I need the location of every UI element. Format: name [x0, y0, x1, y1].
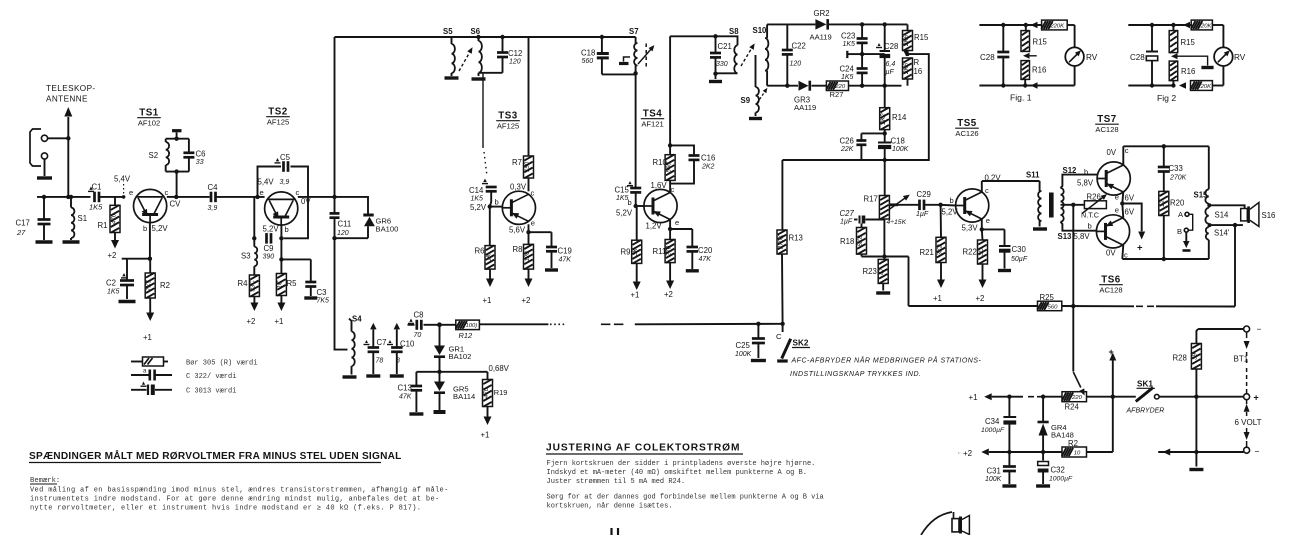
capacitor C19 — [545, 232, 572, 270]
svg-text:+1: +1 — [143, 333, 152, 342]
svg-text:1K5: 1K5 — [471, 196, 484, 203]
fig2 meter RV — [1214, 25, 1246, 86]
svg-text:C: C — [776, 332, 782, 341]
svg-text:R15: R15 — [1033, 38, 1048, 47]
inductor S12 S13 secondary — [1058, 166, 1098, 241]
svg-text:(100): (100) — [464, 323, 478, 329]
wire TS4 emitter — [668, 220, 692, 232]
svg-text:C23: C23 — [841, 32, 855, 41]
capacitor C11 — [330, 197, 352, 238]
terminal +1 below R5 — [275, 296, 286, 327]
svg-text:R5: R5 — [287, 279, 298, 288]
svg-text:6K8: 6K8 — [857, 235, 864, 247]
svg-text:CV: CV — [170, 200, 182, 209]
svg-text:RV: RV — [1234, 53, 1246, 62]
wire osc top bus — [767, 23, 815, 25]
inductor S7 — [629, 27, 656, 76]
legend electrolytic symbol — [131, 382, 172, 396]
capacitor C4 — [208, 183, 219, 212]
svg-text:R15: R15 — [914, 33, 929, 42]
svg-text:50µF: 50µF — [1011, 256, 1028, 263]
svg-text:1µF: 1µF — [840, 219, 853, 226]
label 5,4V at TS1 — [114, 175, 131, 199]
inductor S3 — [241, 247, 257, 275]
svg-text:B: B — [1177, 227, 1182, 236]
svg-text:5,8V: 5,8V — [1077, 179, 1094, 188]
minus rail — [1158, 447, 1259, 470]
svg-text:6 VOLT: 6 VOLT — [1235, 418, 1262, 427]
svg-text:47K: 47K — [399, 394, 412, 401]
svg-text:R23: R23 — [863, 267, 877, 276]
svg-text:b: b — [1084, 168, 1088, 177]
svg-text:b: b — [1088, 222, 1092, 231]
svg-text:e: e — [1115, 206, 1119, 215]
svg-text:5,2V: 5,2V — [470, 203, 487, 212]
transistor TS4 — [644, 189, 677, 222]
svg-text:C11: C11 — [338, 220, 352, 229]
svg-text:e: e — [260, 188, 264, 197]
svg-text:6V: 6V — [1125, 208, 1135, 217]
resistor R8 — [513, 232, 534, 269]
resistor R22 — [963, 229, 988, 264]
labels TS7 base — [1077, 168, 1094, 188]
svg-text:2K6: 2K6 — [903, 62, 910, 75]
svg-text:+: + — [1254, 393, 1259, 403]
inductor S14 — [1205, 204, 1229, 224]
svg-text:C18: C18 — [581, 49, 595, 58]
wire center tap down — [1072, 205, 1074, 372]
AFC feedback wire — [782, 54, 928, 160]
fig2 resistor 220K top — [1191, 20, 1223, 30]
diode GR1 — [434, 325, 471, 372]
label telescope antenna — [46, 84, 96, 104]
svg-text:C8: C8 — [414, 311, 424, 320]
capacitor C13 — [398, 372, 440, 414]
svg-text:C30: C30 — [1012, 245, 1027, 254]
svg-text:220K: 220K — [1049, 23, 1065, 29]
svg-text:e: e — [531, 219, 535, 228]
capacitor C23 — [841, 22, 868, 54]
wire R17 R18 R23 node — [862, 219, 909, 259]
terminal +1 below R21 — [933, 263, 945, 304]
svg-text:GR2: GR2 — [814, 9, 830, 18]
svg-text:C28: C28 — [1130, 53, 1145, 62]
svg-text:120: 120 — [509, 59, 521, 66]
capacitor C6 — [183, 150, 205, 167]
resistor R23 — [863, 259, 891, 293]
svg-text:+2: +2 — [976, 294, 985, 303]
svg-text:R22: R22 — [963, 248, 977, 257]
legend electrolytic text — [186, 388, 236, 396]
antenna lead wire — [64, 107, 72, 197]
fig2 bottom wire — [1128, 82, 1186, 89]
svg-text:TS2: TS2 — [268, 107, 288, 118]
svg-text:b: b — [495, 198, 499, 207]
fig1 wiper — [1023, 53, 1037, 59]
svg-text:120: 120 — [790, 61, 802, 68]
transistor TS2 — [265, 192, 298, 225]
svg-text:270K: 270K — [1169, 175, 1187, 182]
diode GR3 — [794, 81, 826, 112]
svg-text:R2: R2 — [1068, 439, 1078, 448]
capacitor C34 electrolytic — [981, 397, 1016, 452]
capacitor C5 — [275, 153, 291, 186]
note paragraph — [30, 486, 449, 513]
terminal +2 below R4 — [247, 297, 259, 327]
svg-text:b: b — [628, 198, 632, 207]
svg-text:8: 8 — [396, 358, 400, 365]
transistor TS3 — [502, 178, 535, 224]
svg-text:1K5: 1K5 — [107, 289, 120, 296]
terminal +2 below R1 — [108, 233, 120, 261]
svg-text:7K5: 7K5 — [146, 279, 153, 291]
svg-text:Ved måling af en basisspænding: Ved måling af en basisspænding imod minu… — [30, 486, 449, 495]
resistor R4 — [238, 275, 260, 297]
resistor R10 — [653, 143, 676, 192]
emitter rail with + terminal — [1122, 204, 1145, 254]
svg-text:C31: C31 — [987, 467, 1001, 476]
wire R28 top to minus — [1198, 324, 1261, 334]
svg-text:instrumentets indre modstand.: instrumentets indre modstand. For at gør… — [30, 496, 440, 504]
tuning line to C14 — [483, 73, 487, 176]
svg-text:+1: +1 — [481, 431, 490, 440]
svg-text:AF102: AF102 — [138, 119, 160, 128]
wire to C3 — [281, 259, 310, 281]
svg-text:560: 560 — [582, 58, 594, 65]
svg-text:0V: 0V — [301, 197, 311, 206]
trimmer arrow R15 R16 — [903, 50, 910, 57]
svg-text:S16: S16 — [1262, 211, 1276, 220]
fig2 resistor 220K bottom — [1190, 81, 1223, 91]
inductor S4 — [343, 315, 363, 378]
wire TS4 top to tank — [670, 34, 718, 38]
TS1 lead labels — [129, 188, 181, 233]
terminal +2 below R11 — [664, 263, 674, 299]
capacitor C18 100K electrolytic — [878, 133, 909, 195]
svg-text:AF125: AF125 — [267, 118, 289, 127]
TS3 labels — [509, 183, 535, 235]
coil core ground mark — [619, 57, 630, 64]
resistor R13 — [777, 160, 803, 324]
subheading bemaerk — [30, 477, 60, 485]
svg-text:1,2V: 1,2V — [646, 222, 663, 231]
svg-text:1K: 1K — [485, 253, 492, 261]
svg-text:TS1: TS1 — [139, 108, 159, 119]
svg-text:5,4V: 5,4V — [258, 178, 275, 187]
svg-text:S3: S3 — [241, 252, 251, 261]
legend resistor symbol — [131, 357, 168, 366]
svg-text:C3: C3 — [317, 288, 327, 297]
NTC resistor R26 — [1073, 192, 1108, 219]
fig2 caption — [1157, 93, 1176, 103]
svg-text:1000µF: 1000µF — [1049, 476, 1073, 483]
svg-text:5,6V: 5,6V — [509, 226, 526, 235]
svg-text:AA119: AA119 — [810, 33, 832, 42]
resistor R9 — [621, 206, 642, 264]
svg-text:C15: C15 — [615, 186, 630, 195]
TS4 labels — [646, 181, 680, 231]
svg-text:S5: S5 — [443, 27, 453, 36]
svg-text:R20: R20 — [1170, 199, 1185, 208]
tank ground — [709, 74, 722, 82]
fig1 resistor R16 — [1021, 60, 1046, 85]
capacitor C16 — [670, 145, 715, 183]
svg-text:BT1: BT1 — [1234, 355, 1249, 364]
svg-text:R28: R28 — [1173, 354, 1187, 363]
svg-text:R16: R16 — [1181, 67, 1195, 76]
wire C4 to TS2 — [216, 195, 265, 199]
resistor R16 — [903, 58, 923, 86]
wire TS3 base — [470, 198, 502, 213]
svg-text:1000µF: 1000µF — [981, 427, 1005, 434]
svg-text:nytte rørvoltmeter, eller et i: nytte rørvoltmeter, eller et instrument … — [30, 505, 421, 513]
svg-text:5,2V: 5,2V — [616, 209, 633, 218]
svg-text:3K: 3K — [632, 247, 639, 255]
svg-text:R: R — [914, 58, 920, 67]
svg-text:3K2: 3K2 — [936, 244, 943, 256]
wire C18 bottom to S7 — [602, 73, 636, 75]
fig2 capacitor C28 — [1130, 25, 1158, 86]
svg-text:100K: 100K — [985, 476, 1002, 483]
wire TS1 base down — [148, 223, 152, 261]
capacitor C33 — [1158, 146, 1187, 191]
svg-text:TS6: TS6 — [1101, 275, 1121, 286]
svg-text:−: − — [1257, 324, 1262, 334]
resistor R21 — [920, 205, 947, 263]
wire TS2 base down — [279, 225, 283, 273]
svg-text:+2: +2 — [664, 290, 673, 299]
svg-text:+2: +2 — [963, 449, 973, 458]
transistor TS7 — [1097, 162, 1130, 195]
wire TS1 collector to tank — [167, 172, 179, 199]
inductor S11 primary — [1026, 171, 1047, 230]
designator TS7 — [1095, 114, 1119, 134]
terminal +2 below R8 — [522, 269, 533, 305]
svg-text:220K: 220K — [1197, 23, 1213, 29]
wire TS5 collector to S11 — [982, 181, 1040, 192]
fig1 bottom wire — [979, 82, 1074, 89]
wire left column down to S4 — [335, 238, 348, 349]
svg-text:R12: R12 — [459, 331, 473, 340]
inductor S8 — [713, 27, 739, 76]
svg-text:3C: 3C — [978, 248, 985, 256]
svg-text:JUSTERING AF COLEKTORSTRØM: JUSTERING AF COLEKTORSTRØM — [546, 443, 740, 454]
resistor R5 — [276, 273, 297, 295]
wire TS2 emitter-bias branch — [252, 197, 256, 247]
svg-text:16: 16 — [914, 67, 923, 76]
svg-text:+1: +1 — [483, 296, 492, 305]
potentiometer R24 — [1043, 372, 1087, 412]
svg-text:AFBRYDER: AFBRYDER — [1126, 408, 1165, 415]
resistor R20 — [1159, 191, 1185, 259]
transformer center tap — [1061, 203, 1076, 207]
wire to C2 — [122, 258, 150, 260]
svg-text:70: 70 — [414, 332, 422, 339]
svg-text:BA114: BA114 — [453, 392, 475, 401]
transistor TS5 — [956, 189, 989, 222]
svg-text:RV: RV — [1086, 53, 1098, 62]
svg-text:220K: 220K — [1196, 84, 1212, 90]
svg-text:c: c — [531, 189, 535, 198]
capacitor C25 — [735, 322, 766, 361]
resistor R25 — [909, 293, 1236, 311]
svg-text:C16: C16 — [701, 154, 715, 163]
svg-text:+1: +1 — [969, 393, 979, 402]
inductor S9 — [741, 55, 770, 119]
bottom edge marks — [612, 528, 619, 535]
svg-text:C 322/ værdi: C 322/ værdi — [186, 373, 236, 381]
svg-text:C20: C20 — [698, 246, 713, 255]
svg-text:S15: S15 — [1194, 191, 1209, 200]
svg-text:R19: R19 — [494, 388, 508, 397]
svg-text:BA102: BA102 — [449, 352, 472, 361]
resistor R15 — [862, 24, 929, 50]
capacitor C31 — [985, 452, 1016, 486]
svg-text:BA100: BA100 — [376, 225, 399, 234]
svg-text:78: 78 — [376, 358, 384, 365]
svg-text:R13: R13 — [789, 234, 803, 243]
svg-text:TS3: TS3 — [498, 111, 518, 122]
svg-text:+2: +2 — [247, 317, 256, 326]
svg-text:47: 47 — [879, 268, 886, 275]
svg-text:C5: C5 — [280, 153, 291, 162]
svg-text:47K: 47K — [559, 257, 572, 264]
svg-text:5,3V: 5,3V — [962, 224, 979, 233]
svg-text:270: 270 — [665, 245, 672, 257]
capacitor C24 — [840, 54, 868, 86]
svg-text:µF: µF — [886, 69, 895, 76]
svg-text:kortskruen, når denne isættes.: kortskruen, når denne isættes. — [547, 502, 673, 511]
inductor S5 — [443, 27, 459, 78]
svg-text:AC128: AC128 — [1099, 286, 1122, 295]
svg-text:C24: C24 — [840, 65, 855, 74]
capacitor C1 — [88, 183, 124, 212]
tap node S15 S14 — [1207, 203, 1211, 207]
resistor R28 — [1173, 329, 1202, 452]
measure point A — [1178, 210, 1193, 230]
fig1 meter RV — [1065, 25, 1097, 86]
rail +1 wire — [1007, 395, 1045, 399]
capacitor C27 electrolytic — [840, 209, 885, 226]
svg-text:R15: R15 — [1181, 38, 1196, 47]
rail +2 wire — [1007, 450, 1062, 454]
svg-text:R21: R21 — [920, 248, 934, 257]
svg-text:220: 220 — [1071, 395, 1083, 401]
resistor R12 — [442, 320, 480, 340]
stub with T end — [847, 51, 864, 58]
fig1 caption — [1010, 93, 1032, 103]
switch SK1 — [1126, 380, 1197, 415]
terminal +1 below R6 — [483, 269, 495, 305]
svg-text:C28: C28 — [980, 53, 995, 62]
tap node S14 S14p — [1208, 223, 1212, 227]
svg-text:R8: R8 — [513, 245, 523, 254]
svg-text:TS5: TS5 — [957, 118, 977, 129]
svg-text:+1: +1 — [631, 291, 640, 300]
svg-text:e: e — [129, 188, 133, 197]
wire TS2 collector to C11 node — [298, 195, 337, 199]
svg-text:0,68V: 0,68V — [489, 364, 510, 373]
diode GR2 — [810, 9, 862, 42]
resistor R14 — [880, 86, 907, 130]
resistor R1 — [98, 197, 121, 233]
wire S6 C12 bottom — [479, 72, 503, 74]
terminal +1 below R2 — [143, 298, 154, 342]
inductor S10 — [753, 24, 769, 85]
svg-text:+2: +2 — [522, 296, 531, 305]
svg-text:S14': S14' — [1214, 229, 1230, 238]
capacitor C10 — [387, 323, 415, 376]
svg-text:C27: C27 — [840, 209, 855, 218]
TS5 labels — [962, 174, 1002, 233]
svg-text:Bør 305 (R) værdi: Bør 305 (R) værdi — [186, 360, 257, 368]
svg-text:10: 10 — [1074, 450, 1081, 456]
capacitor C2 — [106, 259, 136, 302]
fig1 top wire — [979, 22, 1041, 28]
svg-text:120: 120 — [524, 251, 531, 262]
svg-text:c: c — [1125, 146, 1129, 155]
wire main line TS1c to C4 — [176, 196, 209, 198]
neutralizing loop C5 wires — [258, 167, 309, 239]
svg-text:b: b — [950, 196, 954, 205]
terminal +2 below R22 — [976, 264, 987, 303]
svg-text:12: 12 — [1159, 200, 1166, 207]
inductor S6 — [471, 27, 486, 79]
wire S7 to C15 — [635, 73, 637, 187]
svg-text:C7: C7 — [377, 338, 387, 347]
svg-text:C2: C2 — [106, 279, 116, 288]
svg-text:33: 33 — [196, 159, 204, 166]
svg-text:C4: C4 — [208, 183, 219, 192]
svg-text:0,3V: 0,3V — [510, 183, 527, 192]
svg-text:5,2V: 5,2V — [152, 224, 169, 233]
svg-text:TS7: TS7 — [1097, 114, 1117, 125]
svg-text:0V: 0V — [1106, 249, 1116, 258]
svg-text:S11: S11 — [1026, 171, 1040, 180]
wire tap2 to speaker bottom — [1210, 223, 1243, 227]
fig1 resistor 220K — [1041, 20, 1074, 30]
svg-text:R27: R27 — [830, 90, 844, 99]
svg-text:−: − — [1255, 447, 1260, 457]
capacitor C17 — [16, 195, 53, 242]
svg-text:390: 390 — [263, 254, 275, 261]
wire TS4 base — [616, 198, 644, 218]
svg-text:1C: 1C — [277, 280, 284, 288]
capacitor C21 — [710, 36, 732, 73]
coupling arrow S5-S6 — [459, 46, 475, 71]
svg-text:Fjern kortskruen der sidder i: Fjern kortskruen der sidder i printplade… — [547, 460, 816, 468]
svg-text:INDSTILLINGSKNAP TRYKKES IND: INDSTILLINGSKNAP TRYKKES IND. — [790, 371, 921, 378]
svg-text:R2: R2 — [160, 281, 170, 290]
svg-text:S14: S14 — [1215, 211, 1230, 220]
designator TS5 — [955, 118, 979, 138]
capacitor C12 — [497, 35, 522, 73]
svg-text:R14: R14 — [892, 113, 907, 122]
svg-text:+1: +1 — [275, 317, 284, 326]
svg-text:b: b — [285, 225, 289, 234]
svg-text:R17: R17 — [864, 195, 878, 204]
antenna stub bar above tank — [172, 131, 181, 139]
svg-text:N.T.C: N.T.C — [1081, 211, 1099, 220]
svg-text:R24: R24 — [1065, 403, 1080, 412]
capacitor C22 — [782, 24, 806, 85]
node GR1 GR5 — [437, 370, 441, 374]
svg-text:R26: R26 — [1087, 193, 1101, 202]
svg-text:C26: C26 — [840, 137, 854, 146]
svg-text:C21: C21 — [718, 42, 732, 51]
svg-text:SK2: SK2 — [793, 339, 809, 348]
battery BT1 — [1234, 332, 1262, 447]
